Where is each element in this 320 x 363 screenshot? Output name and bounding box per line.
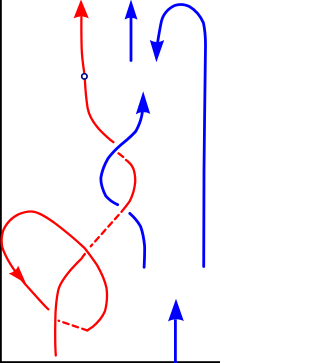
red braid strand (open strand bottom edge to top arrow) [55, 18, 135, 356]
wire: dashed stretch between crossing 3 and crossing 2 (behind axis disk) [91, 212, 122, 247]
wire: short dash below crossing 3 [83, 254, 85, 257]
wire: dash below crossing 1 [119, 153, 124, 157]
black bottom edge strip [0, 361, 220, 363]
wire: top shaft above ring [81, 18, 84, 73]
red top arrowhead [74, 0, 89, 18]
black left edge strip [0, 0, 2, 363]
blue hook down arrowhead [150, 40, 164, 62]
wire: after crossing 2 down to end [130, 213, 145, 267]
red loop direction arrowhead [9, 266, 26, 284]
blue hook (inverted U with down arrowhead, right vertical) [157, 4, 205, 266]
wire: right arc through crossing 2 [122, 160, 136, 212]
blue top arrow (short segment with up arrowhead) [130, 19, 133, 61]
blue bottom arrow (up from bottom edge) [174, 320, 177, 363]
navy ring on red strand [82, 74, 87, 79]
wire: upper curve from ring to crossing 1 [85, 81, 114, 143]
blue arrowhead B (pointing up, mid diagram) [136, 91, 150, 114]
wire: from arrowhead B down across crossing 1 into left arc [101, 113, 142, 205]
blue braid strand (arrowhead B down through crossings to lower end) [101, 113, 145, 268]
red loop (braid axis circle, closed curve) [2, 212, 107, 331]
wire: bottom vertical segment [55, 258, 82, 355]
